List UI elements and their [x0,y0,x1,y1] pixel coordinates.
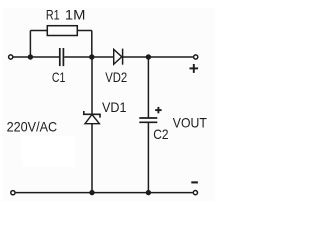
wire: R1 loop right vertical [91,31,93,58]
svg-text:C1: C1 [52,69,66,85]
wire: R1 loop left horizontal [30,30,47,32]
plus sign at output terminal [190,64,199,73]
svg-text:220V/AC: 220V/AC [7,118,58,134]
plus sign at C2 [155,107,161,113]
output terminal - bottom right [193,191,197,195]
zener diode VD1 [84,111,100,124]
node D junction (VD1 to bottom rail) [89,190,94,195]
wire: C2 bottom plate down to bottom rail [147,122,149,192]
wire: VD2 cathode to node C [123,56,149,58]
wire: node B down to VD1 cathode [91,57,93,114]
svg-text:R1: R1 [46,7,60,23]
capacitor C1 [60,48,64,66]
wire: C1 right plate to node B [64,56,92,58]
node B junction [89,54,94,59]
white patch under 220V/AC [22,136,75,167]
input terminal bottom left [11,191,15,195]
wire: node B to VD2 anode [92,56,114,58]
wire: input terminal to node A [13,56,30,58]
wire: R1 loop right horizontal [77,30,92,32]
output terminal + top right [194,55,198,59]
input terminal top left [9,55,13,59]
diode VD2 [114,49,123,65]
svg-text:C2: C2 [153,126,168,142]
wire: R1 loop left vertical [29,31,31,58]
wire: bottom rail [16,192,193,194]
wire: node C down to C2 top plate [147,57,149,118]
wire: node C to + output terminal [148,56,193,58]
svg-text:VD2: VD2 [105,69,127,85]
capacitor C2 [139,118,157,122]
node C junction [146,54,151,59]
svg-text:VD1: VD1 [102,99,127,115]
node E junction (C2 to bottom rail) [146,190,151,195]
minus sign at output terminal [191,181,198,183]
node A junction [28,54,33,59]
svg-text:1M: 1M [65,7,86,23]
resistor R1 [47,26,77,36]
wire: node A to C1 left plate [30,56,59,58]
wire: VD1 anode down to bottom rail [91,124,93,193]
svg-text:VOUT: VOUT [173,114,207,130]
